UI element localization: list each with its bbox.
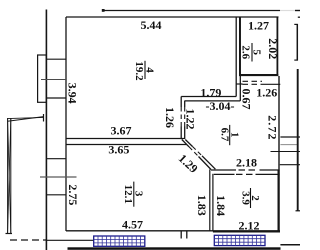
svg-text:1.27: 1.27 <box>248 19 269 33</box>
neighbor line right y164 <box>280 164 300 166</box>
wall stub below bottom wall left <box>180 231 182 239</box>
window W1 mid line <box>41 79 66 81</box>
svg-text:1.83: 1.83 <box>195 195 209 216</box>
room 1 label fraction <box>219 125 241 145</box>
neighbor line right y137 <box>280 136 300 138</box>
balcony diagonal 1 <box>8 118 11 234</box>
wall room2 top inner solid right <box>256 173 280 175</box>
svg-text:4.57: 4.57 <box>122 218 143 232</box>
wall room4 bottom <box>66 138 184 140</box>
svg-text:-3.04-: -3.04- <box>206 99 235 113</box>
wall room5 under dashes upper <box>243 80 263 82</box>
wall left interior <box>65 17 67 231</box>
wall top exterior gray part <box>280 10 295 12</box>
window W2 top tick <box>46 158 66 160</box>
wall room4 door jamb inner lower <box>184 127 186 140</box>
wall bottom exterior thick <box>68 247 281 250</box>
balcony left rail line a <box>8 117 44 122</box>
wall room2 top outer solid left <box>211 169 236 171</box>
wall top interior <box>66 16 279 18</box>
wall room2 bottom inner <box>213 231 280 233</box>
svg-text:1.22: 1.22 <box>184 109 198 130</box>
wall left exterior <box>45 10 47 250</box>
svg-text:3.67: 3.67 <box>111 124 132 138</box>
wall room2 top outer solid right <box>260 169 280 171</box>
neighbor line bottom right <box>280 244 300 246</box>
wall right interior <box>278 76 280 232</box>
balcony diagonal 2 <box>8 118 11 234</box>
window W1 opening top line <box>46 58 66 60</box>
room 5 label fraction <box>240 43 263 62</box>
wall diagonal inner dashes <box>193 147 203 156</box>
svg-text:1.26: 1.26 <box>256 86 277 100</box>
wall room5 under solid right <box>262 83 280 85</box>
svg-text:12.1: 12.1 <box>122 185 134 204</box>
svg-text:1.26: 1.26 <box>163 107 177 128</box>
wall room2 top outer dashes <box>239 169 258 171</box>
balcony rail wall tick <box>43 114 45 122</box>
wall room4 door dashes outer <box>180 107 182 127</box>
svg-text:2.6: 2.6 <box>240 45 252 59</box>
room 2 label fraction <box>239 188 261 208</box>
balcony dashed connection <box>10 239 46 241</box>
wall room4 right face <box>235 17 237 97</box>
room 4 label fraction <box>133 61 156 81</box>
svg-text:2.75: 2.75 <box>66 184 80 205</box>
wall top exterior right stub <box>295 10 300 12</box>
wall room5 under dashes lower <box>243 83 263 85</box>
wall diagonal inner lower <box>202 156 215 169</box>
wall room4 door jamb inner <box>184 101 186 107</box>
node tick start of top exterior wall <box>102 9 105 12</box>
svg-text:3.9: 3.9 <box>239 191 251 205</box>
neighbor bracket hook bottom <box>294 59 298 61</box>
wall hallway top outer <box>181 96 236 98</box>
balcony bottom edge <box>6 233 13 235</box>
wall top exterior <box>103 10 280 12</box>
svg-text:2.12: 2.12 <box>239 219 260 233</box>
svg-text:1.84: 1.84 <box>214 195 228 216</box>
balcony left rail line b <box>8 117 44 118</box>
wall diagonal inner upper <box>185 140 192 147</box>
window W1 sill rect <box>38 55 47 102</box>
balcony left side line <box>7 118 9 234</box>
wall room5 under solid left <box>236 83 242 85</box>
wall room2 top inner solid left <box>214 173 235 175</box>
wall room4 door jamb outer <box>180 97 182 108</box>
svg-text:3.94: 3.94 <box>66 83 80 104</box>
svg-text:2.72: 2.72 <box>266 115 280 140</box>
svg-text:0.67: 0.67 <box>240 89 254 110</box>
svg-text:2.18: 2.18 <box>236 155 257 169</box>
wall diagonal outer dashes <box>189 147 199 157</box>
wall room3 top <box>66 144 187 146</box>
balcony right side line <box>10 118 12 234</box>
wall diagonal outer upper <box>182 140 189 147</box>
wall bottom interior <box>66 230 280 232</box>
balcony hatched slab 1 <box>94 236 145 246</box>
wall stub below bottom wall right <box>186 231 188 239</box>
wall room2 right <box>278 170 280 232</box>
neighbor line right gray y144.6 <box>280 144 297 146</box>
window W2 bottom tick <box>46 194 66 196</box>
wall room4 door dashes inner <box>184 107 186 127</box>
svg-text:6.7: 6.7 <box>219 128 231 142</box>
wall room5 left outer <box>239 17 241 101</box>
neighbor corner right bottom <box>296 210 301 212</box>
window W1 opening bottom line <box>46 97 66 99</box>
svg-text:3.65: 3.65 <box>108 143 129 157</box>
balcony hatched slab 2 <box>214 235 265 245</box>
neighbor bracket hook top <box>294 23 298 25</box>
window W2 mid gray line <box>40 176 77 178</box>
wall hall right inner / room2 left <box>212 174 214 232</box>
wall hallway top inner <box>185 100 241 102</box>
neighbor bracket vertical <box>296 24 298 61</box>
wall diagonal outer lower <box>199 157 212 170</box>
svg-text:2.02: 2.02 <box>266 38 280 59</box>
neighbor wall stub top right <box>298 16 300 18</box>
wall segment bottom left solid <box>46 239 93 241</box>
wall hall right outer <box>209 169 211 231</box>
svg-text:5.44: 5.44 <box>141 18 162 32</box>
room 3 label fraction <box>122 182 145 207</box>
room5 box walls <box>239 17 278 76</box>
svg-text:1.79: 1.79 <box>200 85 221 99</box>
neighbor line right y151.5 <box>271 151 301 153</box>
wall room2 top inner dashes <box>236 173 254 175</box>
neighbor wall band right <box>297 69 299 211</box>
wall room4 door jamb outer lower <box>180 127 182 140</box>
svg-text:19.2: 19.2 <box>133 61 145 81</box>
